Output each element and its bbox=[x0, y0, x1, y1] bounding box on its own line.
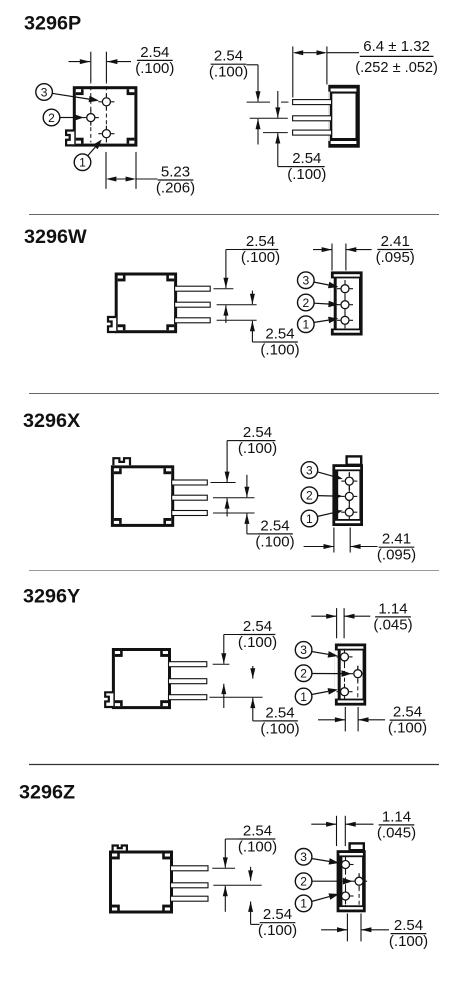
svg-text:2.54: 2.54 bbox=[394, 917, 423, 934]
centerline pin1/3 column bbox=[105, 80, 107, 143]
3296X top adjuster tab bbox=[113, 458, 130, 465]
dim arrow right (2.54 Z-bot) bbox=[361, 927, 389, 932]
dim label 2.54/(.100) W-bottom bbox=[260, 325, 299, 358]
dim arrow left (2.54 P) bbox=[69, 59, 91, 64]
circled 3 (X) bbox=[301, 462, 318, 479]
P lead 3 (side) bbox=[293, 130, 332, 135]
arrow up to lead2 (X) bbox=[225, 498, 230, 516]
Z front pin 1 bbox=[338, 888, 354, 904]
svg-text:2.54: 2.54 bbox=[243, 618, 272, 635]
leader 2 to pin (Y) bbox=[312, 670, 352, 677]
svg-text:3: 3 bbox=[306, 463, 313, 477]
svg-text:1: 1 bbox=[306, 512, 313, 526]
arrow up to lead2 (Y) bbox=[221, 684, 226, 708]
leader 1 to pin (X) bbox=[317, 510, 343, 517]
dim label 2.54/(.100) P-top bbox=[135, 44, 174, 77]
svg-text:1: 1 bbox=[79, 156, 86, 170]
circled 1 (Z) bbox=[295, 895, 312, 912]
bracket top 2.54 X bbox=[227, 440, 240, 442]
leader 2 to pin (W) bbox=[314, 301, 339, 308]
ext line Y pin1-col bbox=[344, 707, 346, 731]
3296Y anti-rotation lug bbox=[105, 692, 113, 707]
dim arrow right (2.41 W) bbox=[346, 247, 372, 252]
svg-text:3296Y: 3296Y bbox=[23, 586, 80, 608]
ext line X lead2 bbox=[213, 497, 255, 499]
W lead 3 bbox=[175, 318, 211, 323]
W front pin 2 bbox=[337, 297, 353, 313]
extension line body right bottom bbox=[135, 152, 137, 189]
dim label 5.23/(.206) bbox=[156, 163, 195, 196]
pin 3 (P top view) bbox=[98, 94, 114, 110]
svg-text:(.045): (.045) bbox=[373, 616, 412, 633]
svg-text:2.54: 2.54 bbox=[265, 325, 294, 342]
3296P top view body bbox=[74, 88, 136, 145]
X front pin 2 bbox=[341, 488, 357, 504]
W lead 1 bbox=[175, 286, 211, 291]
svg-text:(.100): (.100) bbox=[238, 634, 277, 651]
Z front pin 3 bbox=[338, 857, 354, 873]
Y pin centerline B bbox=[357, 666, 359, 701]
dim span 5.23 bbox=[106, 177, 136, 182]
ext line Z pin1-col bbox=[346, 914, 348, 942]
pin 1 (P top view) bbox=[98, 126, 114, 142]
3296W anti-rotation lug bbox=[108, 317, 116, 332]
bracket bottom 2.54 W bbox=[252, 341, 262, 343]
circled 1 (W) bbox=[298, 316, 315, 333]
Y front pin 3 bbox=[337, 649, 353, 665]
3296Z corner standoffs bbox=[112, 854, 170, 911]
arrow up to lead3 (W) bbox=[250, 321, 255, 342]
svg-text:(.045): (.045) bbox=[377, 824, 416, 841]
dim span 6.4 bbox=[293, 50, 327, 55]
ext line X lead1 bbox=[211, 482, 236, 484]
X lead 3 bbox=[172, 511, 208, 516]
ext line W pin-col (2.41) bbox=[345, 244, 347, 271]
3296Z top adjuster tab bbox=[113, 846, 127, 851]
svg-text:3296P: 3296P bbox=[24, 13, 81, 35]
separator line 2 bbox=[29, 393, 439, 395]
dim label 2.54/(.100) X-bottom bbox=[255, 517, 294, 550]
svg-text:2.54: 2.54 bbox=[246, 233, 275, 250]
svg-text:(.100): (.100) bbox=[238, 440, 277, 457]
extension line pin1 col bottom bbox=[105, 152, 107, 189]
ext line X body-left (2.41) bbox=[333, 528, 335, 553]
W lead 2 bbox=[175, 302, 211, 307]
3296X side body bbox=[112, 467, 172, 526]
3296W side body bbox=[116, 274, 175, 332]
Z front body bbox=[337, 850, 366, 912]
extension line pin2 col bbox=[90, 52, 92, 81]
dim label 2.54/(.100) Z-top bbox=[238, 822, 277, 855]
dim label 2.54/(.100) Z-right bbox=[389, 917, 428, 950]
extension line pin1 col bbox=[105, 52, 107, 81]
svg-text:1: 1 bbox=[300, 897, 307, 911]
dim arrow right (1.14 Z) bbox=[345, 822, 373, 827]
Y front pin 2 bbox=[350, 666, 366, 682]
dim arrow right (1.14 Y) bbox=[344, 614, 370, 619]
svg-text:(.252 ± .052): (.252 ± .052) bbox=[355, 60, 438, 76]
Y slot ext line right (1.14) bbox=[343, 608, 345, 638]
circled 2 (Y) bbox=[295, 665, 312, 682]
svg-text:3296W: 3296W bbox=[24, 226, 87, 248]
leader to 6.4 label bbox=[327, 52, 359, 54]
svg-text:3296X: 3296X bbox=[23, 410, 81, 432]
ext line Z pin2-col bbox=[360, 914, 362, 942]
3296P anti-rotation lug bbox=[66, 131, 74, 146]
dim arrow right (2.41 X) bbox=[350, 544, 377, 549]
W front pin 3 bbox=[337, 281, 353, 297]
svg-text:2.54: 2.54 bbox=[260, 517, 289, 534]
arrow down to lead1 (Y) bbox=[221, 635, 226, 664]
Y slot ext line left (1.14) bbox=[336, 608, 338, 638]
dim label 2.54/(.100) X-top bbox=[238, 424, 277, 457]
arrow down to lead2 (W) bbox=[250, 291, 255, 305]
bracket top 2.54 W bbox=[226, 249, 244, 251]
arrow up to lead3 (P) bbox=[275, 133, 280, 167]
svg-text:(.100): (.100) bbox=[209, 64, 248, 81]
svg-text:2.41: 2.41 bbox=[382, 531, 411, 548]
leader 2 to pin (X) bbox=[317, 493, 342, 500]
arrow up to lead3 (Z) bbox=[248, 902, 253, 925]
dim label 2.54/(.100) Y-bottom bbox=[260, 704, 299, 737]
dim label 2.54/(.100) P-side-bottom bbox=[287, 150, 326, 183]
X front pin centerline bbox=[348, 472, 350, 518]
leader 1 to pin (W) bbox=[314, 317, 339, 324]
X front pin 1 bbox=[341, 504, 357, 520]
svg-text:2.41: 2.41 bbox=[381, 233, 410, 250]
circled 3 (Y) bbox=[295, 642, 312, 659]
ext line W lead3 bbox=[217, 319, 257, 321]
svg-text:(.095): (.095) bbox=[376, 249, 415, 266]
arrow down to lead2 (X) bbox=[244, 475, 249, 497]
bracket top 2.54 Z bbox=[225, 838, 240, 840]
ext line X pin-col (2.41) bbox=[349, 528, 351, 553]
dim label 2.41/(.095) X bbox=[377, 531, 416, 564]
Z lead 2 bbox=[171, 883, 209, 888]
leader to 5.23 label bbox=[136, 178, 158, 180]
Y lead 3 bbox=[169, 695, 207, 700]
P side body bbox=[328, 85, 360, 148]
ext line X lead3 bbox=[213, 512, 255, 514]
svg-text:2.54: 2.54 bbox=[243, 424, 272, 441]
svg-text:2: 2 bbox=[48, 111, 55, 125]
X front body bbox=[332, 464, 363, 526]
dim label 2.54/(.100) Z-bottom bbox=[258, 906, 297, 939]
circled 3 (Z) bbox=[295, 849, 312, 866]
leader 3 to pin (X) bbox=[317, 472, 343, 480]
dim label 2.54/(.100) W-top bbox=[241, 233, 280, 266]
leader 1 to pin1 bbox=[88, 140, 102, 157]
Z slot ext line left (1.14) bbox=[336, 816, 338, 846]
separator line 4 bbox=[29, 764, 439, 766]
leader 1 to pin (Z) bbox=[312, 893, 340, 901]
X lead 1 bbox=[172, 480, 208, 485]
svg-text:(.100): (.100) bbox=[388, 720, 427, 737]
arrow up to lead3 (Y) bbox=[250, 698, 255, 721]
dim arrow right (2.54 Y-bot) bbox=[358, 717, 385, 722]
Y pin centerline A bbox=[344, 651, 346, 700]
dim arrow left (2.54 Z-bot) bbox=[321, 927, 347, 932]
ext line Y lead1 bbox=[213, 663, 230, 665]
ext line lead3 P bbox=[263, 132, 288, 134]
svg-text:(.100): (.100) bbox=[238, 838, 277, 855]
ext line W lead2 bbox=[217, 304, 257, 306]
ext line lead2 P bbox=[250, 117, 288, 119]
svg-text:(.100): (.100) bbox=[255, 533, 294, 550]
Z pin centerline A bbox=[345, 857, 347, 906]
svg-text:(.206): (.206) bbox=[156, 179, 195, 196]
P lead 2 (side) bbox=[293, 116, 332, 121]
arrow down to lead1 (Z) bbox=[223, 839, 228, 868]
3296P body corner standoffs bbox=[76, 89, 135, 143]
svg-text:3: 3 bbox=[41, 85, 48, 99]
arrow down to lead1 (X) bbox=[225, 441, 230, 482]
svg-text:2: 2 bbox=[300, 875, 307, 889]
svg-text:2: 2 bbox=[302, 296, 309, 310]
arrow down to lead2 (Z) bbox=[248, 867, 253, 881]
arrow up to lead2 (P) bbox=[256, 119, 261, 145]
svg-text:3: 3 bbox=[300, 850, 307, 864]
dim label 2.54/(.100) P-side-left bbox=[209, 48, 248, 81]
dim label 2.54/(.100) Y-top bbox=[238, 618, 277, 651]
svg-text:(.100): (.100) bbox=[241, 249, 280, 266]
bracket bottom 2.54 Y bbox=[253, 720, 262, 722]
Z front pin 2 bbox=[351, 873, 367, 889]
P lead 1 (side) bbox=[293, 100, 332, 105]
3296W corner standoffs bbox=[118, 276, 174, 331]
3296Y corner standoffs bbox=[115, 651, 168, 706]
X top screw boss bbox=[347, 456, 362, 464]
svg-text:3: 3 bbox=[302, 274, 309, 288]
dim label 2.41/(.095) W bbox=[376, 233, 415, 266]
arrow down to lead2 (P) bbox=[275, 91, 280, 118]
leader 3 to pin (Y) bbox=[312, 651, 339, 658]
svg-text:1: 1 bbox=[300, 690, 307, 704]
3296Z side body bbox=[111, 852, 172, 912]
circled 2 (P) bbox=[43, 109, 60, 126]
Y front body bbox=[335, 644, 366, 706]
X lead 2 bbox=[172, 495, 208, 500]
dim label 1.14/(.045) Y bbox=[373, 600, 412, 633]
leader 3 to pin3 bbox=[52, 93, 99, 102]
Y lead 1 bbox=[169, 662, 207, 667]
svg-text:(.100): (.100) bbox=[260, 720, 299, 737]
Z top screw boss bbox=[350, 843, 364, 850]
3296Y side body bbox=[113, 650, 169, 708]
bracket top 2.54 Y bbox=[224, 634, 240, 636]
separator line 3 bbox=[29, 570, 439, 572]
Z lead 3 bbox=[171, 896, 209, 901]
svg-text:2: 2 bbox=[306, 489, 313, 503]
svg-text:(.100): (.100) bbox=[135, 60, 174, 77]
leader 2 to pin2 bbox=[60, 114, 85, 121]
separator line 1 bbox=[29, 214, 439, 216]
circled 2 (X) bbox=[301, 487, 318, 504]
circled 3 (P) bbox=[36, 84, 53, 101]
svg-text:1.14: 1.14 bbox=[382, 808, 411, 825]
pin 2 (P top view) bbox=[83, 110, 99, 126]
dim label 2.54/(.100) Y-right bbox=[388, 704, 427, 737]
circled 3 (W) bbox=[298, 272, 315, 289]
Z lead 1 bbox=[171, 866, 209, 871]
dim arrow right (2.54 P) bbox=[107, 59, 131, 64]
bracket to bottom 2.54 label P bbox=[278, 166, 289, 168]
circled 1 (P) bbox=[74, 154, 91, 171]
3296X corner standoffs bbox=[114, 468, 171, 524]
leader 3 to pin (Z) bbox=[312, 858, 340, 865]
circled 2 (W) bbox=[298, 294, 315, 311]
W front body bbox=[331, 271, 363, 335]
Z slot ext line right (1.14) bbox=[344, 816, 346, 846]
bracket bottom 2.54 X bbox=[247, 533, 257, 535]
svg-text:6.4 ± 1.32: 6.4 ± 1.32 bbox=[363, 38, 430, 55]
svg-text:(.100): (.100) bbox=[287, 166, 326, 183]
Y front pin 1 bbox=[337, 684, 353, 700]
X front pin 3 bbox=[341, 473, 357, 489]
arrow up to lead3 (X) bbox=[244, 514, 249, 534]
ext line Z lead1 bbox=[212, 867, 235, 869]
svg-text:3296Z: 3296Z bbox=[19, 782, 75, 804]
circled 1 (Y) bbox=[295, 688, 312, 705]
svg-text:1.14: 1.14 bbox=[378, 600, 407, 617]
arrow up to lead2 (W) bbox=[223, 305, 228, 323]
svg-text:2.54: 2.54 bbox=[263, 906, 292, 923]
svg-text:5.23: 5.23 bbox=[161, 163, 190, 180]
Y lead 2 bbox=[169, 679, 207, 684]
svg-text:(.100): (.100) bbox=[260, 341, 299, 358]
leader 2 to pin (Z) bbox=[312, 878, 353, 885]
W front pin centerline bbox=[344, 280, 346, 327]
ext line Y pin2-col bbox=[357, 707, 359, 731]
circled 1 (X) bbox=[301, 510, 318, 527]
svg-text:(.100): (.100) bbox=[258, 922, 297, 939]
dim arrow left (2.41 X) bbox=[304, 544, 334, 549]
svg-text:2.54: 2.54 bbox=[292, 150, 321, 167]
dim arrow left (2.54 Y-bot) bbox=[318, 717, 345, 722]
ext line body left (6.4) bbox=[326, 46, 328, 84]
ext line Y lead3 bbox=[209, 696, 262, 698]
svg-text:3: 3 bbox=[300, 643, 307, 657]
arrow down to lead2 (Y) bbox=[250, 666, 255, 679]
leader from 2.54 label P-left bbox=[247, 64, 259, 66]
ext line Z lead2 bbox=[213, 884, 261, 886]
svg-text:2.54: 2.54 bbox=[243, 822, 272, 839]
dim arrow left (1.14 Z) bbox=[311, 822, 336, 827]
svg-text:2: 2 bbox=[300, 667, 307, 681]
dim arrow left (2.41 W) bbox=[313, 247, 332, 252]
svg-text:2.54: 2.54 bbox=[393, 704, 422, 721]
svg-text:2.54: 2.54 bbox=[265, 704, 294, 721]
arrow down to lead1 (W) bbox=[223, 250, 228, 289]
svg-text:2.54: 2.54 bbox=[214, 48, 243, 65]
arrow down to lead1 (P) bbox=[256, 65, 261, 102]
dim label 1.14/(.045) Z bbox=[377, 808, 416, 841]
bracket bottom 2.54 Z bbox=[251, 923, 260, 925]
svg-text:(.100): (.100) bbox=[389, 933, 428, 950]
ext line lead1 P bbox=[247, 101, 270, 103]
leader 1 to pin (Y) bbox=[312, 688, 339, 695]
ext line W body-left (2.41) bbox=[331, 244, 333, 271]
circled 2 (Z) bbox=[295, 873, 312, 890]
dim arrow left (1.14 Y) bbox=[311, 614, 336, 619]
svg-text:2.54: 2.54 bbox=[140, 44, 169, 61]
ext line lead tip (6.4) bbox=[292, 46, 294, 97]
svg-text:1: 1 bbox=[302, 318, 309, 332]
centerline pin2 column bbox=[90, 80, 92, 143]
W front pin 1 bbox=[337, 312, 353, 328]
arrow up to lead2 (Z) bbox=[223, 886, 228, 912]
leader 3 to pin (W) bbox=[314, 282, 339, 289]
svg-text:(.095): (.095) bbox=[377, 547, 416, 564]
ext line W lead1 bbox=[214, 288, 234, 290]
Z pin centerline B bbox=[358, 874, 360, 908]
